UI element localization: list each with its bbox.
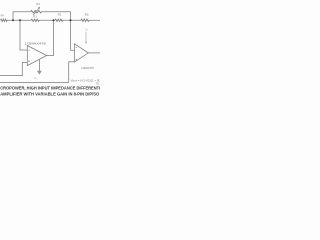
svg-text:R1: R1 [33, 14, 37, 18]
svg-text:V+: V+ [85, 27, 89, 31]
svg-text:R3: R3 [36, 2, 40, 6]
svg-text:V-: V- [34, 76, 37, 80]
svg-text:1/2MAX478: 1/2MAX478 [81, 66, 93, 70]
svg-text:R2: R2 [58, 13, 62, 17]
svg-text:CROPOWER, HIGH INPUT IMPEDANCE: CROPOWER, HIGH INPUT IMPEDANCE DIFFERENT… [0, 86, 100, 91]
svg-text:AMPLIFIER WITH VARIABLE GAIN I: AMPLIFIER WITH VARIABLE GAIN IN 8-PIN DI… [0, 92, 99, 97]
svg-text:R4: R4 [1, 13, 4, 17]
svg-text:R5: R5 [85, 13, 89, 17]
svg-text:1/2MAX478: 1/2MAX478 [25, 42, 47, 46]
